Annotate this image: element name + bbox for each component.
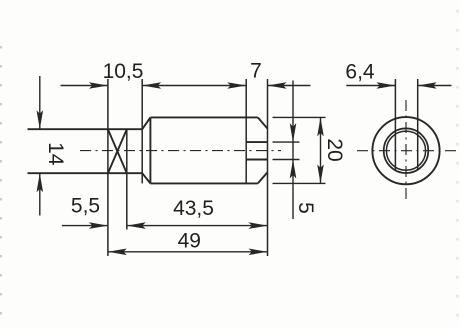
svg-text:7: 7 [250, 60, 262, 83]
svg-text:49: 49 [178, 229, 201, 252]
svg-text:14: 14 [44, 142, 67, 166]
svg-text:5,5: 5,5 [71, 195, 100, 218]
svg-text:6,4: 6,4 [345, 61, 375, 84]
svg-text:5: 5 [294, 202, 317, 214]
svg-text:20: 20 [323, 138, 346, 161]
svg-text:10,5: 10,5 [103, 60, 144, 83]
svg-text:43,5: 43,5 [173, 197, 214, 220]
